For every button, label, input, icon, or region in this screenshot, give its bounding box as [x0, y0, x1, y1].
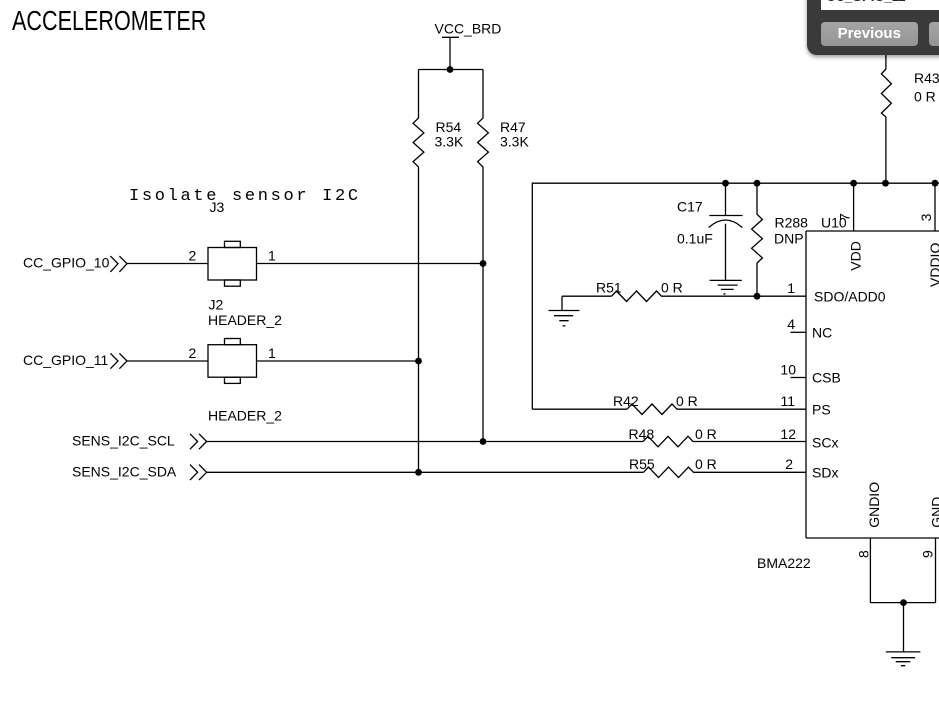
svg-text:CC_GPIO_11: CC_GPIO_11 — [23, 352, 109, 368]
svg-text:R55: R55 — [629, 456, 655, 472]
label R55 — [629, 456, 655, 472]
svg-text:C17: C17 — [677, 199, 703, 215]
label R51 — [596, 280, 622, 296]
resistor R54 — [413, 70, 424, 473]
wire J2 pin1 to SDA pullup line — [257, 360, 419, 362]
svg-text:3.3K: 3.3K — [435, 134, 464, 150]
svg-text:1: 1 — [268, 248, 276, 264]
svg-text:ACCELEROMETER: ACCELEROMETER — [12, 7, 206, 37]
junction R288 bottom / SDO row — [754, 293, 761, 300]
label R48 — [629, 426, 655, 442]
pin name PS — [812, 401, 831, 417]
connector J2 — [208, 339, 257, 384]
power symbol VCC_BRD bar — [442, 37, 459, 69]
ground (R51) — [549, 296, 580, 326]
svg-text:R42: R42 — [613, 393, 639, 409]
svg-text:8: 8 — [856, 550, 872, 558]
svg-text:3: 3 — [918, 213, 934, 221]
svg-text:VDDIO: VDDIO — [927, 243, 939, 287]
wire big loop left vertical — [532, 183, 939, 409]
svg-text:0 R: 0 R — [676, 393, 698, 409]
svg-text:10: 10 — [780, 361, 796, 377]
node CC_GPIO_11 — [23, 352, 109, 368]
pin 1 (J3) — [268, 248, 276, 264]
pin name NC — [812, 324, 832, 340]
svg-text:R48: R48 — [629, 426, 655, 442]
label R47 — [500, 119, 526, 135]
resistor R42 — [627, 404, 806, 415]
connector J3 — [208, 241, 257, 286]
wire R51 row — [562, 295, 612, 297]
capacitor C17 — [709, 183, 743, 280]
svg-text:SENS_I2C_SDA: SENS_I2C_SDA — [72, 463, 177, 479]
value DNP — [774, 230, 804, 246]
pin 2 (U10) — [785, 456, 793, 472]
value 0 R (R43) — [914, 89, 936, 105]
svg-text:BMA222: BMA222 — [757, 555, 811, 571]
popup dialog — [807, 0, 939, 55]
junction CC_GPIO_11 / R54 line — [415, 358, 422, 365]
svg-text:HEADER_2: HEADER_2 — [208, 408, 282, 424]
svg-text:0.1uF: 0.1uF — [677, 231, 713, 247]
resistor R43 — [881, 55, 891, 183]
svg-text:HEADER_2: HEADER_2 — [208, 312, 282, 328]
ground (C17) — [710, 280, 742, 294]
pin 10 (U10) — [780, 361, 796, 377]
junction pin7 node — [850, 180, 857, 187]
wire pin10 stub — [791, 377, 807, 379]
value 3.3K (R47) — [500, 134, 529, 150]
pin name SDO/ADD0 — [814, 288, 886, 304]
svg-text:2: 2 — [189, 345, 197, 361]
junction gnd node — [900, 599, 907, 606]
button Previous — [821, 22, 919, 46]
resistor R51 — [612, 291, 807, 302]
port chevron CC_GPIO_11 — [110, 353, 127, 368]
button Next — [929, 22, 939, 46]
svg-text:0 R: 0 R — [914, 89, 936, 105]
label R288 — [775, 215, 809, 231]
port chevron SENS_I2C_SDA — [190, 465, 207, 480]
svg-text:DNP: DNP — [774, 230, 804, 246]
junction C17 top — [722, 180, 729, 187]
node CC_GPIO_10 — [23, 255, 110, 271]
value 3.3K (R54) — [435, 134, 464, 150]
svg-text:CSB: CSB — [812, 370, 841, 386]
svg-text:R51: R51 — [596, 280, 622, 296]
pin name GND — [929, 497, 939, 528]
value 0 R (R51) — [661, 280, 683, 296]
node SENS_I2C_SDA — [72, 463, 177, 479]
svg-text:2: 2 — [785, 456, 793, 472]
svg-text:2: 2 — [189, 248, 197, 264]
wire CC_GPIO_11 to J2 pin2 — [127, 360, 208, 362]
pin 2 (J2) — [189, 345, 197, 361]
label R42 — [613, 393, 639, 409]
wire gnd bottom — [870, 602, 935, 604]
resistor R47 — [478, 70, 489, 442]
label BMA222 — [757, 555, 811, 571]
svg-text:1: 1 — [268, 345, 276, 361]
svg-text:9: 9 — [920, 550, 936, 558]
svg-text:1: 1 — [787, 280, 795, 296]
pin 9 (U10) — [920, 550, 936, 558]
pin 1 (U10) — [787, 280, 795, 296]
note Isolate sensor I2C — [129, 187, 361, 206]
pin 4 (U10) — [787, 316, 795, 332]
svg-text:CC_GPIO_10: CC_GPIO_10 — [23, 255, 110, 271]
wire VCC to R54/R47 tops — [419, 69, 484, 71]
label R43 — [914, 70, 939, 86]
label J2 — [209, 297, 224, 313]
wire SENS_I2C_SDA to R55 — [207, 471, 644, 473]
title ACCELEROMETER — [12, 7, 206, 37]
wire CC_GPIO_10 to J3 pin2 — [127, 263, 208, 265]
pin name SCx — [812, 435, 838, 451]
svg-text:4: 4 — [787, 316, 795, 332]
pin name CSB — [812, 370, 841, 386]
svg-text:0 R: 0 R — [661, 280, 683, 296]
label J3 — [210, 199, 225, 215]
svg-text:GND: GND — [929, 497, 939, 528]
pin 1 (J2) — [268, 345, 276, 361]
power flag VCC_BRD — [435, 21, 502, 37]
svg-text:SENS_I2C_SCL: SENS_I2C_SCL — [72, 433, 175, 449]
svg-text:GNDIO: GNDIO — [866, 482, 882, 528]
value 0 R (R48) — [695, 426, 717, 442]
wire pin3 stub — [934, 183, 936, 231]
wire pin9 stub — [935, 538, 937, 603]
svg-text:0 R: 0 R — [695, 456, 717, 472]
resistor R48 — [643, 436, 806, 447]
svg-text:PS: PS — [812, 401, 831, 417]
port chevron CC_GPIO_10 — [110, 256, 127, 272]
value 0 R (R55) — [695, 456, 717, 472]
junction VCC node — [447, 66, 454, 73]
junction SCL / R47 line — [480, 438, 487, 445]
junction R43 node — [882, 180, 889, 187]
wire pin4 stub — [791, 331, 807, 333]
IC U10 outline — [806, 231, 939, 538]
junction pin3 node — [932, 180, 939, 187]
svg-text:SCx: SCx — [812, 435, 838, 451]
svg-text:11: 11 — [780, 393, 795, 409]
label HEADER_2 (second) — [208, 408, 282, 424]
pin name GNDIO — [866, 482, 882, 528]
pin name SDx — [812, 464, 838, 480]
svg-text:SDO/ADD0: SDO/ADD0 — [814, 288, 886, 304]
label C17 — [677, 199, 703, 215]
svg-text:R288: R288 — [775, 215, 809, 231]
svg-text:SDx: SDx — [812, 464, 838, 480]
resistor R55 — [644, 467, 807, 478]
port chevron SENS_I2C_SCL — [190, 434, 207, 449]
pin 12 (U10) — [780, 426, 796, 442]
svg-text:R43: R43 — [914, 70, 939, 86]
junction SDA / R54 line — [415, 469, 422, 476]
svg-text:Isolate sensor I2C: Isolate sensor I2C — [129, 187, 361, 206]
ground (U10) — [886, 652, 921, 666]
label HEADER_2 (J2) — [208, 312, 282, 328]
node SENS_I2C_SCL — [72, 433, 175, 449]
label R54 — [436, 119, 462, 135]
wire SENS_I2C_SCL to R48 — [207, 441, 643, 443]
resistor R288 — [752, 183, 763, 296]
value 0 R (R42) — [676, 393, 698, 409]
pin 2 (J3) — [189, 248, 197, 264]
popup search field — [821, 0, 939, 10]
svg-text:VCC_BRD: VCC_BRD — [435, 21, 502, 37]
svg-text:VDD: VDD — [848, 241, 864, 271]
junction R288 top — [754, 180, 761, 187]
svg-text:NC: NC — [812, 324, 832, 340]
svg-text:J3: J3 — [210, 199, 225, 215]
svg-text:U10: U10 — [821, 215, 847, 231]
svg-text:3.3K: 3.3K — [500, 134, 529, 150]
pin name VDDIO — [927, 243, 939, 287]
wire gnd drop — [903, 603, 905, 652]
svg-text:0 R: 0 R — [695, 426, 717, 442]
svg-text:J2: J2 — [209, 297, 224, 313]
pin 8 (U10) — [856, 550, 872, 558]
junction CC_GPIO_10 / R47 line — [480, 260, 487, 267]
pin 7 (U10) — [837, 213, 853, 221]
wire pin8 stub — [869, 538, 871, 603]
wire R42 row from loop — [532, 408, 627, 410]
pin name VDD — [848, 241, 864, 271]
wire J3 pin1 to SCL pullup line — [257, 263, 484, 265]
svg-text:12: 12 — [780, 426, 796, 442]
pin 11 (U10) — [780, 393, 795, 409]
label U10 — [821, 215, 847, 231]
pin 3 (U10) — [918, 213, 934, 221]
value 0.1uF — [677, 231, 713, 247]
wire pin7 stub — [853, 183, 855, 231]
